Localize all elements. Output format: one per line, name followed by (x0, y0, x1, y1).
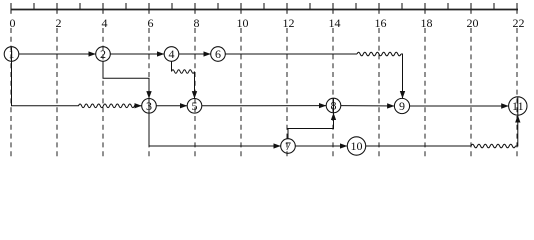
ruler minor tick 1 (33, 3, 35, 10)
node 8 (326, 98, 341, 113)
ruler major tick 8 (194, 3, 196, 14)
gridline t=2 (56, 28, 58, 159)
node 10 (347, 137, 365, 155)
ruler major tick 6 (148, 3, 150, 14)
ruler baseline (11, 9, 519, 11)
ruler minor tick 19 (447, 3, 449, 10)
ruler major tick 0 (10, 3, 12, 14)
svg-text:2: 2 (56, 16, 62, 30)
wire 6-9 slack wave (357, 52, 401, 56)
wire 4-5 slack wave (172, 70, 195, 74)
gridline t=10 (240, 28, 242, 159)
svg-text:1: 1 (9, 47, 15, 61)
wire 6-9 corner down into 9 (401, 54, 403, 98)
wire through node 11 (517, 97, 519, 115)
gridline t=8 (194, 28, 196, 159)
node circle fills (5, 47, 527, 155)
svg-text:6: 6 (215, 47, 221, 61)
wire 1-2 (19, 53, 96, 55)
gridline t=22 (516, 28, 518, 159)
svg-text:14: 14 (329, 16, 341, 30)
gridline t=20 (470, 28, 472, 159)
wire 1-3 horizontal part (11, 105, 79, 107)
wire 3-7 elbow into 7 left (149, 113, 281, 146)
node 11 (509, 97, 527, 115)
ruler major tick 16 (378, 3, 380, 14)
wire 10-11 slack wave (471, 144, 516, 148)
svg-text:22: 22 (513, 16, 525, 30)
ruler minor tick 21 (493, 3, 495, 10)
ruler minor tick 7 (171, 3, 173, 10)
node 2 (96, 47, 111, 62)
gridline t=18 (424, 28, 426, 159)
wire 1-3 vertical drop (11, 61, 13, 106)
svg-text:8: 8 (194, 16, 200, 30)
wire 2-4 (110, 53, 164, 55)
wire 2-3 elbow into 3 top (103, 61, 149, 99)
gridline t=0 (10, 28, 12, 159)
wire through node 8 (333, 99, 335, 113)
ruler major tick 22 (516, 3, 518, 14)
node 1 (4, 47, 19, 62)
wire 5-8 (202, 105, 326, 107)
wire 7-10 (295, 145, 347, 147)
node 9 (394, 98, 409, 113)
svg-text:2: 2 (100, 47, 106, 61)
wire 1-3 slack wave into 3 (79, 104, 142, 108)
svg-text:12: 12 (283, 16, 295, 30)
node 7 (281, 139, 296, 154)
svg-text:3: 3 (146, 99, 152, 113)
node 6 (211, 47, 226, 62)
wire 4-5 vertical drop (171, 61, 173, 72)
gridline t=6 (148, 28, 150, 159)
ruler major tick 12 (286, 3, 288, 14)
svg-text:7: 7 (285, 139, 291, 153)
wire 7-8 elbow into 8 bottom (288, 113, 334, 139)
node 5 (187, 99, 202, 114)
ruler minor tick 13 (309, 3, 311, 10)
ruler major tick 2 (56, 3, 58, 14)
svg-text:20: 20 (467, 16, 479, 30)
ruler minor tick 5 (125, 3, 127, 10)
node 3 (142, 99, 157, 114)
svg-text:4: 4 (102, 16, 108, 30)
wire 10-11 straight part (366, 145, 471, 147)
ruler major tick 4 (102, 3, 104, 14)
gridline t=4 (102, 28, 104, 159)
svg-text:10: 10 (237, 16, 249, 30)
wire 3-5 (156, 105, 187, 107)
ruler major tick 18 (424, 3, 426, 14)
gridline t=16 (378, 28, 380, 159)
svg-text:16: 16 (375, 16, 387, 30)
wire 6-9 straight part (225, 53, 357, 55)
gridline t=12 (286, 28, 288, 159)
wire through node 1 (11, 47, 13, 61)
svg-text:11: 11 (512, 99, 524, 113)
gridline t=14 (332, 28, 334, 159)
ruler minor tick 9 (217, 3, 219, 10)
svg-text:6: 6 (148, 16, 154, 30)
wire 4-6 (179, 53, 211, 55)
svg-text:10: 10 (351, 139, 363, 153)
wire 8-9 (341, 105, 395, 107)
ruler minor tick 11 (263, 3, 265, 10)
svg-text:5: 5 (192, 99, 198, 113)
node 4 (164, 47, 179, 62)
ruler minor tick 15 (355, 3, 357, 10)
svg-text:0: 0 (10, 16, 16, 30)
ruler minor tick 17 (401, 3, 403, 10)
svg-text:4: 4 (169, 47, 175, 61)
ruler minor tick 3 (79, 3, 81, 10)
svg-text:8: 8 (331, 99, 337, 113)
wire 10-11 corner up into 11 bottom (516, 115, 518, 146)
ruler major tick 10 (240, 3, 242, 14)
svg-text:18: 18 (421, 16, 433, 30)
ruler major tick 14 (332, 3, 334, 14)
ruler major tick 20 (470, 3, 472, 14)
wire 4-5 drop into 5 top (194, 72, 196, 99)
wire 9-11 (410, 105, 509, 107)
svg-text:9: 9 (399, 99, 405, 113)
wire through node 3 (148, 99, 150, 113)
